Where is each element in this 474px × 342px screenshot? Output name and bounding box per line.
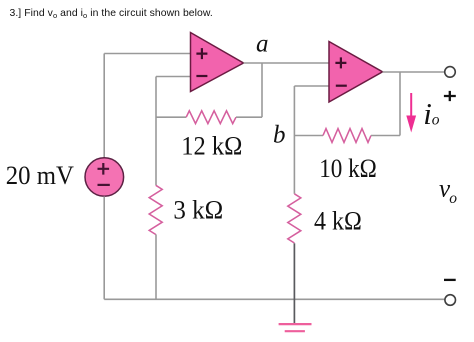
wire: top wire from source to op-amp U1 + input (104, 53, 190, 55)
svg-text:4 kΩ: 4 kΩ (314, 206, 362, 236)
wire: bottom rail (104, 298, 445, 300)
wire: output feedback vertical (399, 72, 401, 136)
ground (279, 324, 312, 331)
wire: U2 output to terminal (383, 71, 445, 73)
label 3 kOhm (173, 194, 223, 224)
title text (10, 8, 213, 20)
resistor R3 10 kOhm (323, 129, 371, 143)
wire: vertical from U2 - input through node b to 4k top (293, 86, 295, 194)
label v_o (439, 176, 457, 207)
wire: 10k left stub (294, 135, 323, 137)
label i_o (423, 96, 440, 131)
wire: U1 inverting input stub (156, 76, 191, 78)
wire: 10k right stub (371, 135, 400, 137)
svg-text:12 kΩ: 12 kΩ (181, 131, 242, 161)
op-amp U2 (329, 42, 383, 103)
svg-text:20 mV: 20 mV (6, 160, 74, 190)
terminal: bottom output (445, 295, 456, 306)
label 12 kOhm (181, 131, 242, 161)
wire: 12k left stub (156, 116, 186, 118)
terminal: top output (445, 67, 456, 78)
voltage source V1 20 mV (85, 158, 124, 197)
wire: U2 inverting input stub (294, 85, 329, 87)
op-amp U1 (191, 33, 244, 92)
wire: 4k bottom through rail to ground (293, 243, 295, 324)
resistor R2 3 kOhm (149, 185, 162, 234)
svg-text:a: a (256, 30, 269, 57)
svg-text:3.] Find vo and io in the circ: 3.] Find vo and io in the circuit shown … (10, 8, 213, 20)
svg-text:3 kΩ: 3 kΩ (173, 194, 223, 224)
label minus (output polarity) (444, 279, 456, 281)
label 10 kOhm (319, 153, 377, 183)
node b label (273, 122, 286, 149)
wire: left vertical below source (103, 196, 105, 299)
label 20 mV (6, 160, 74, 190)
label 4 kOhm (314, 206, 362, 236)
node a wire: U1 output to U2 + input (244, 62, 330, 64)
svg-text:i: i (423, 96, 432, 131)
svg-text:o: o (432, 112, 440, 129)
label plus (output polarity) (444, 91, 456, 101)
resistor R4 4 kOhm (288, 194, 301, 243)
svg-text:b: b (273, 122, 286, 149)
resistor R1 12 kOhm (186, 111, 236, 124)
wire: left vertical above source (103, 54, 105, 159)
svg-text:o: o (449, 190, 457, 207)
node a label (256, 30, 269, 57)
svg-text:10 kΩ: 10 kΩ (319, 153, 377, 183)
current arrow i_o (406, 93, 416, 133)
wire: 12k right stub (236, 116, 262, 118)
wire: feedback vertical from node a (261, 63, 263, 117)
wire: 3k bottom to rail (155, 234, 157, 299)
wire: vertical from U1 - input down to 3k top (155, 77, 157, 186)
